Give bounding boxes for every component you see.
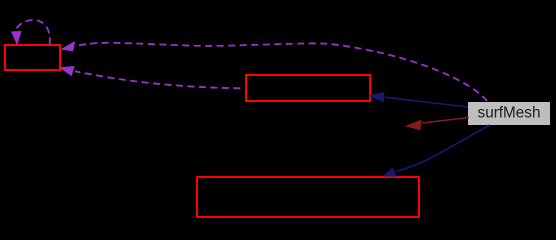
node B (middle class box) xyxy=(246,75,370,101)
edge surfMesh dangling (solid dark red) xyxy=(405,118,469,131)
edge self-loop on node A (dashed purple) xyxy=(11,20,50,46)
node C (bottom class box) xyxy=(197,177,419,217)
edge surfMesh to node C (solid dark blue curve) xyxy=(383,125,490,177)
node A (top-left class box) xyxy=(5,45,60,70)
edge surfMesh to node A (long dashed purple curve) xyxy=(60,41,487,101)
node surfMesh (current node, gray box) xyxy=(468,102,550,125)
edge surfMesh to node B (solid dark blue) xyxy=(368,92,468,107)
svg-text:surfMesh: surfMesh xyxy=(478,105,541,122)
edge node B to node A (short dashed purple curve) xyxy=(59,66,245,88)
